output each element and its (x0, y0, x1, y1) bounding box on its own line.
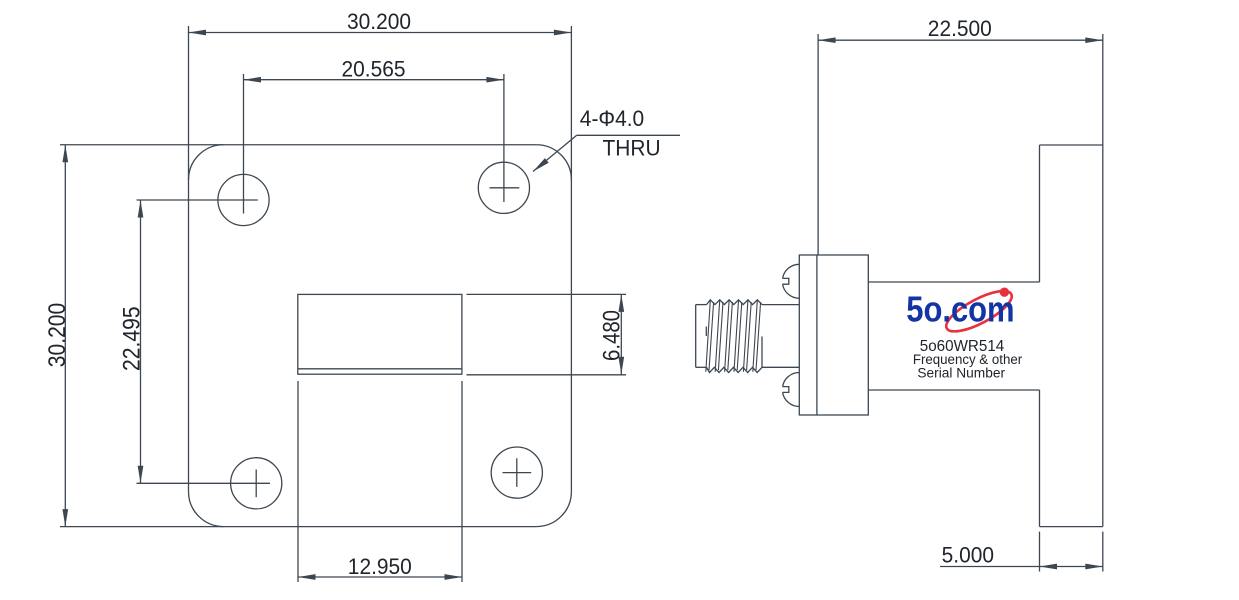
screw head bottom (783, 373, 800, 387)
flange outline corner arc bottom-left (189, 492, 224, 527)
svg-text:Serial Number: Serial Number (917, 364, 1005, 380)
waveguide aperture rectangle (298, 294, 462, 374)
bolt hole bottom-right (491, 447, 542, 498)
svg-text:5o.com: 5o.com (906, 291, 1014, 331)
svg-text:4-Φ4.0: 4-Φ4.0 (580, 105, 644, 131)
dimension 22.500 (body length) (817, 34, 819, 255)
svg-text:5.000: 5.000 (942, 542, 994, 568)
dimension 20.565 (hole spacing horizontal) (244, 79, 504, 81)
dimension 30.200 (left height) (64, 145, 66, 527)
flange outline right edge (with top extension) (570, 26, 572, 492)
center mark top-left hole (243, 74, 245, 214)
svg-text:30.200: 30.200 (44, 303, 71, 368)
bolt hole top-left (218, 174, 269, 225)
flange outline bottom edge (with left extension) (60, 526, 536, 528)
bolt hole bottom-left (231, 458, 282, 509)
dimension 5.000 (flange thickness) (1039, 532, 1041, 572)
svg-text:22.500: 22.500 (928, 15, 992, 41)
svg-text:12.950: 12.950 (348, 553, 412, 579)
dimension 30.200 (top width) (189, 32, 572, 34)
center mark bottom-right hole (503, 472, 532, 474)
dimension 22.495 (hole spacing vertical) (140, 200, 142, 483)
waveguide flange plate (side view) (1040, 144, 1103, 146)
svg-text:6.480: 6.480 (598, 310, 625, 361)
svg-text:22.495: 22.495 (118, 306, 145, 371)
svg-text:THRU: THRU (602, 135, 660, 161)
SMA mounting block (799, 255, 868, 415)
flange outline top edge (with left extension) (60, 144, 536, 146)
bolt hole top-right (478, 162, 529, 213)
flange outline corner arc top-left (189, 145, 224, 180)
adapter body bottom edge (868, 389, 1039, 391)
flange outline corner arc bottom-right (536, 492, 571, 527)
svg-text:20.565: 20.565 (342, 56, 406, 82)
leader and note 4-PHI4.0 THRU (577, 134, 680, 136)
SMA connector barrel (762, 304, 799, 306)
center mark top-right hole (503, 74, 505, 202)
SMA connector end cap (695, 305, 697, 368)
logo red dot (1000, 288, 1009, 297)
adapter body top edge (868, 281, 1039, 283)
SMA connector thread crest bottom (707, 367, 763, 372)
logo red orbit ellipse (941, 283, 1017, 338)
flange outline corner arc top-right (536, 145, 571, 180)
dimension 12.950 (aperture width) (297, 381, 299, 582)
svg-text:30.200: 30.200 (347, 8, 411, 34)
dimension 6.480 (aperture height) (467, 293, 627, 295)
flange outline left edge (with top extension) (188, 26, 190, 492)
waveguide aperture inner line (298, 368, 462, 370)
SMA connector inner step left (705, 327, 707, 337)
SMA connector thread crest top (707, 300, 763, 305)
center mark bottom-left hole (137, 482, 271, 484)
SMA connector thread flanks (706, 300, 761, 372)
screw head top (783, 264, 800, 278)
